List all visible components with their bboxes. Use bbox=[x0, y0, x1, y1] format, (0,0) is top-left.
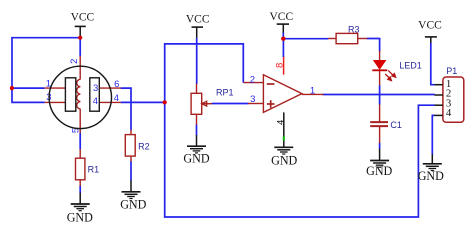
svg-text:C1: C1 bbox=[390, 120, 402, 130]
svg-text:GND: GND bbox=[271, 153, 297, 167]
svg-text:GND: GND bbox=[67, 211, 93, 225]
svg-text:3: 3 bbox=[250, 94, 255, 105]
svg-text:VCC: VCC bbox=[186, 14, 210, 26]
svg-text:8: 8 bbox=[275, 63, 286, 68]
svg-text:LED1: LED1 bbox=[399, 60, 422, 70]
svg-text:R3: R3 bbox=[348, 24, 360, 34]
svg-text:4: 4 bbox=[446, 107, 452, 119]
svg-text:GND: GND bbox=[120, 197, 146, 211]
svg-text:VCC: VCC bbox=[71, 11, 95, 23]
svg-text:4: 4 bbox=[114, 93, 119, 104]
svg-text:VCC: VCC bbox=[418, 19, 442, 31]
svg-text:GND: GND bbox=[366, 164, 392, 178]
svg-text:VCC: VCC bbox=[269, 11, 293, 23]
svg-text:3: 3 bbox=[93, 83, 98, 94]
svg-text:2: 2 bbox=[250, 74, 255, 85]
svg-text:4: 4 bbox=[93, 96, 98, 107]
svg-text:GND: GND bbox=[418, 169, 444, 183]
svg-text:1: 1 bbox=[310, 85, 315, 96]
svg-text:R1: R1 bbox=[88, 165, 100, 175]
svg-text:2: 2 bbox=[69, 59, 80, 64]
svg-text:GND: GND bbox=[183, 151, 209, 165]
svg-text:4: 4 bbox=[276, 120, 287, 125]
svg-text:RP1: RP1 bbox=[216, 87, 234, 97]
svg-text:R2: R2 bbox=[138, 141, 150, 151]
svg-text:6: 6 bbox=[114, 79, 119, 90]
svg-text:P1: P1 bbox=[446, 66, 457, 76]
